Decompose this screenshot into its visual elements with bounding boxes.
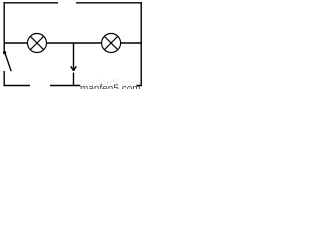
- svg-text:manfen5.com: manfen5.com: [80, 84, 141, 89]
